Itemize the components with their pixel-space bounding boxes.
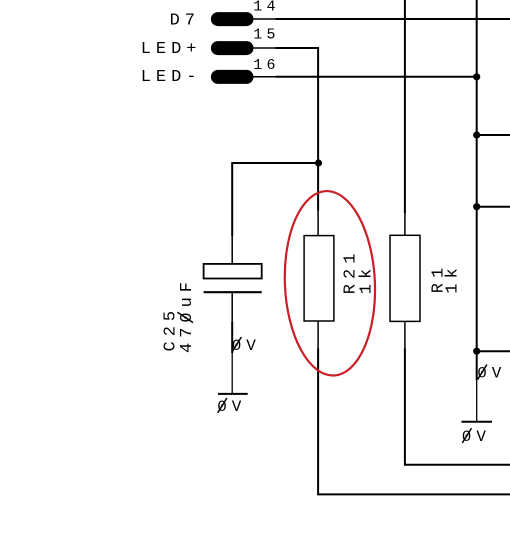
resistor R21 pin top bbox=[317, 210, 319, 236]
ground symbol left bbox=[218, 393, 248, 395]
svg-text:LED+: LED+ bbox=[141, 40, 202, 59]
wire stub right 1 bbox=[477, 134, 510, 136]
capacitor C25 bottom plate bbox=[204, 291, 262, 293]
wire branch to C25 bbox=[232, 163, 318, 236]
resistor R21 body bbox=[304, 236, 334, 321]
wire net 0V right bbox=[476, 351, 478, 380]
wire stub right 2 bbox=[477, 206, 510, 208]
pin stub 14 bbox=[254, 18, 277, 20]
svg-text:1k: 1k bbox=[444, 263, 463, 293]
ground pin right bbox=[476, 380, 478, 421]
capacitor C25 pin top bbox=[231, 236, 233, 264]
connector pin 15 pad bbox=[211, 41, 254, 55]
wire net D7 vertical to R1 bbox=[404, 0, 406, 213]
wire net R1 bottom bbox=[405, 349, 510, 465]
wire net LED- bbox=[276, 76, 477, 78]
connector pin 16 pad bbox=[211, 70, 254, 84]
ground pin left bbox=[231, 353, 233, 394]
slash of zero in 470uF bbox=[177, 312, 193, 322]
capacitor C25 top plate bbox=[204, 264, 262, 279]
junction node LED- / rail bbox=[473, 73, 480, 80]
resistor R1 pin top bbox=[404, 213, 406, 235]
wire net D7 bbox=[276, 18, 510, 20]
svg-text:14: 14 bbox=[253, 0, 279, 15]
wire net R21 bottom bbox=[318, 349, 510, 495]
wire net 0V at C25 bbox=[231, 322, 233, 353]
resistor R1 pin bottom bbox=[404, 321, 406, 349]
wire stub right 3 bbox=[477, 350, 510, 352]
svg-text:D7: D7 bbox=[170, 12, 200, 31]
capacitor C25 pin bottom bbox=[231, 292, 233, 322]
connector pin 14 pad bbox=[211, 12, 254, 26]
svg-text:16: 16 bbox=[253, 57, 279, 74]
svg-text:15: 15 bbox=[253, 26, 279, 43]
junction node LED+/C25 bbox=[315, 159, 322, 166]
ground symbol right bbox=[462, 421, 493, 423]
pin stub 16 bbox=[254, 76, 277, 78]
junction node rail bottom bbox=[473, 348, 480, 355]
highlight ellipse around R21 bbox=[281, 189, 379, 377]
svg-text:LED-: LED- bbox=[141, 68, 202, 87]
pin stub 15 bbox=[254, 47, 277, 49]
wire net LED+ bbox=[276, 48, 319, 211]
resistor R1 body bbox=[390, 235, 420, 321]
wire net right rail bbox=[476, 0, 478, 351]
junction node rail stub 2 bbox=[473, 203, 480, 210]
junction node rail stub 1 bbox=[473, 131, 480, 138]
resistor R21 pin bottom bbox=[317, 321, 319, 349]
